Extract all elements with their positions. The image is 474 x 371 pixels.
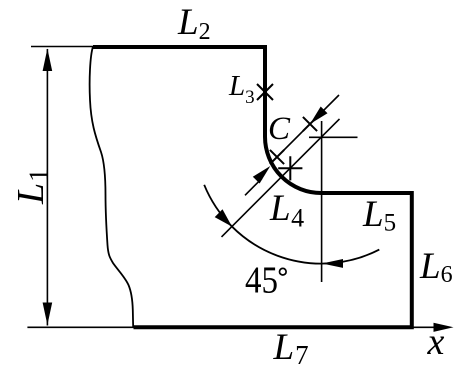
dimension line C (through X1 and X2) (271, 95, 340, 164)
point marker X1 (303, 117, 317, 131)
svg-text:45: 45 (245, 260, 278, 302)
svg-text:x: x (427, 321, 445, 363)
L1 bottom arrowhead (43, 303, 53, 326)
45 degree angular dimension arc (204, 185, 379, 264)
svg-text:C: C (268, 111, 291, 147)
45 degree diagonal line B through arc centre and tool centre (222, 119, 340, 237)
centre line vertical through arc centre (321, 121, 323, 282)
arc arrowhead at diagonal pointing down-right (215, 209, 232, 226)
plus mark (tool nose centre) (278, 156, 302, 180)
top extension line (31, 46, 93, 48)
point marker X2 (270, 150, 284, 164)
bottom extension line (27, 326, 133, 328)
break (wavy) line on left side of part (90, 47, 134, 328)
L1 top arrowhead (43, 49, 53, 72)
x axis arrowhead (434, 323, 454, 332)
point marker X3 on vertical profile line (257, 84, 273, 100)
arrowhead at X1 pointing down-left (310, 107, 328, 125)
L4 leader line with arrowhead pointing up-right (245, 178, 262, 195)
x axis line (412, 326, 436, 328)
part profile outline (thick): top edge, right step, fillet arc, step shoulder, right side, bottom (93, 47, 412, 327)
arc arrowhead at vertical centre line pointing left (322, 259, 343, 268)
centre line horizontal through arc centre (309, 136, 358, 138)
L1 dimension line (46, 49, 48, 326)
